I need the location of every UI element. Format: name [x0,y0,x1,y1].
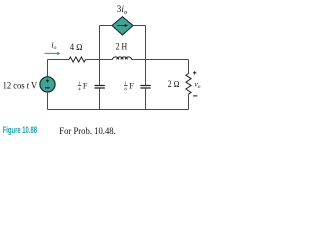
label minus for v_o [193,95,197,97]
label 1/8 F [124,81,134,92]
svg-text:Figure 10.88: Figure 10.88 [3,124,37,135]
svg-text:1: 1 [124,81,127,86]
arrow inside diamond [117,25,125,27]
wire: below capacitor C1 [99,88,101,110]
svg-text:1: 1 [78,81,81,86]
wire: left vertical above source [47,60,49,77]
minus bar inside source [45,87,49,89]
wire: middle rail between resistor and inductor [86,59,113,61]
svg-text:4: 4 [78,87,81,92]
wire: left vertical below source [47,92,49,110]
wire: middle rail right segment [132,59,189,61]
svg-text:io: io [51,40,56,51]
wire: vertical drop x=145.8 (node B) [145,26,147,86]
resistor R 4ohm zigzag [69,57,86,62]
resistor R 2ohm vertical zigzag [186,74,191,95]
wire: below capacitor C2 [145,88,147,110]
svg-text:F: F [83,81,88,90]
wire: top branch left [100,25,113,27]
svg-text:4 Ω: 4 Ω [70,42,83,52]
capacitor C2 1/8F plates [140,86,150,89]
inductor L 2H [113,57,132,60]
dependent current source 3i_o (diamond) [112,17,133,35]
svg-text:3io: 3io [117,4,127,16]
wire: vertical drop x=99.5 (node A) [99,26,101,86]
svg-text:12 cos t V: 12 cos t V [3,81,38,91]
voltage source 12cos t V (circle) [40,77,55,92]
svg-text:2 H: 2 H [116,42,128,52]
svg-text:vo: vo [194,79,200,90]
svg-text:For Prob. 10.48.: For Prob. 10.48. [59,126,116,136]
svg-text:2 Ω: 2 Ω [168,79,180,89]
wire: right vertical above resistor [188,60,190,74]
svg-text:F: F [129,81,134,90]
wire: top branch right [133,25,146,27]
wire: right vertical below resistor [188,94,190,109]
plus sign inside source [46,79,49,82]
wire: bottom rail [48,109,189,111]
wire: middle rail left segment [48,59,70,61]
svg-text:8: 8 [124,87,127,92]
current arrow i_o (teal) [45,52,58,54]
label + for v_o [193,71,197,74]
label 1/4 F [78,81,88,92]
capacitor C1 1/4F plates [95,86,105,89]
